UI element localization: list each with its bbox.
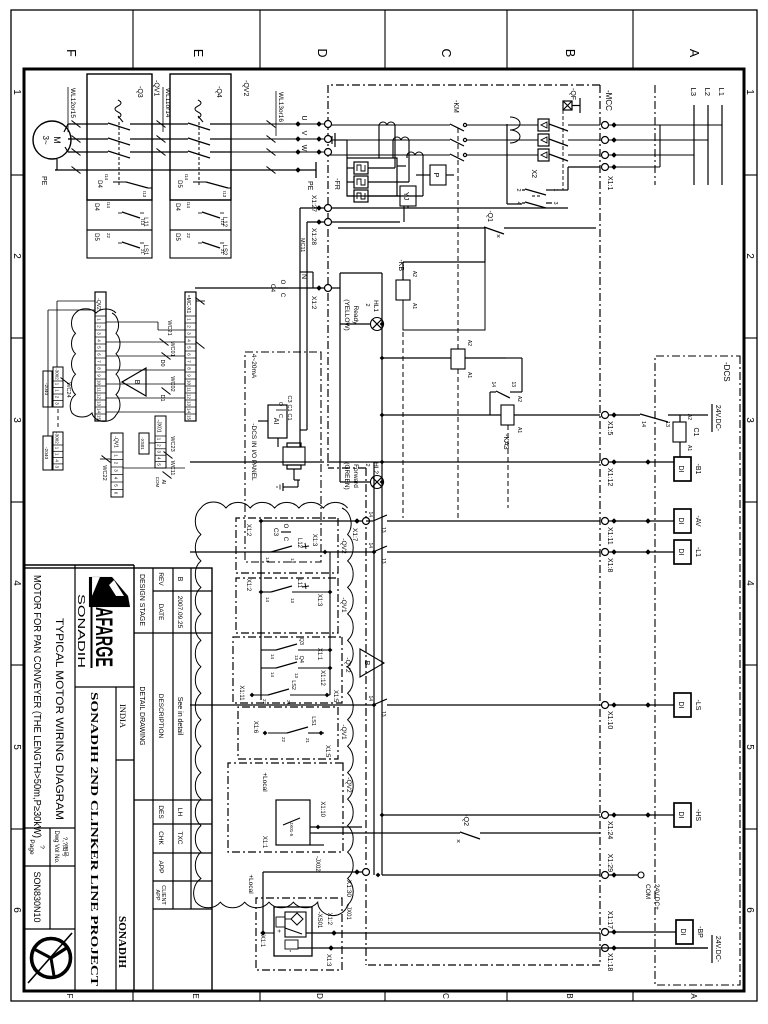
QV2 aux box2 <box>170 230 231 258</box>
terminal X1:30 <box>363 869 370 876</box>
svg-text:L11: L11 <box>296 578 302 588</box>
FR heater element <box>354 190 368 202</box>
wire KM coil bottom <box>382 357 451 359</box>
svg-text:D: D <box>315 993 324 999</box>
svg-text:X1:18: X1:18 <box>606 953 613 971</box>
svg-text:X1:27: X1:27 <box>310 195 317 212</box>
thermal overload relay -FR box <box>347 158 397 196</box>
rev table row line <box>152 568 154 991</box>
dashed link between 3002 strips <box>57 409 59 430</box>
title block line <box>133 565 135 991</box>
cable mark <box>267 167 276 174</box>
zone divider left <box>132 10 134 69</box>
QF pole box <box>538 149 549 161</box>
wire YJ to X1:27 <box>407 206 409 208</box>
svg-text:DI: DI <box>677 812 684 819</box>
wire L1 bus <box>721 105 723 185</box>
svg-text:X1:6: X1:6 <box>252 721 258 734</box>
wire L3 bus <box>693 105 695 185</box>
local box -QV2 no1 <box>236 518 338 573</box>
box -2040 b <box>43 436 52 470</box>
svg-text:24V.DC+: 24V.DC+ <box>653 884 660 910</box>
svg-text:F: F <box>65 994 74 999</box>
svg-text:X1:28: X1:28 <box>310 228 317 245</box>
wire phase lower <box>416 139 450 141</box>
svg-text:C3: C3 <box>272 528 279 537</box>
wire X1:8 lower <box>190 551 373 553</box>
strip -3002 a <box>53 367 63 407</box>
aux contact4 <box>122 242 140 248</box>
svg-text:M: M <box>52 136 62 144</box>
svg-text:Page: Page <box>28 839 35 855</box>
svg-text:Q3: Q3 <box>298 638 304 645</box>
svg-text:AFARGE: AFARGE <box>90 607 117 667</box>
FR heater wire bottom <box>347 181 354 183</box>
terminal X1:17 <box>602 929 609 936</box>
svg-text:LH: LH <box>176 808 183 817</box>
svg-text:A: A <box>687 49 701 58</box>
svg-text:-: - <box>286 950 295 953</box>
svg-text:COM: COM <box>155 477 160 488</box>
wire feeder mid <box>152 138 170 140</box>
zone divider bottom <box>11 828 24 830</box>
terminal strip -QV1 <box>111 433 123 497</box>
contact on X1:10 wire <box>373 699 387 705</box>
revision triangle B no2 <box>360 649 384 677</box>
svg-text:-QV2: -QV2 <box>344 657 351 673</box>
svg-text:L3: L3 <box>689 88 698 96</box>
AI transducer panel box <box>245 352 321 562</box>
connection dot <box>295 121 301 127</box>
svg-text:WL13or16: WL13or16 <box>277 92 284 122</box>
svg-text:4~20mA: 4~20mA <box>250 354 257 379</box>
ground symbol in AI box <box>283 486 290 488</box>
svg-text:14: 14 <box>97 408 102 414</box>
wire X1:8 <box>605 551 674 553</box>
svg-text:C1: C1 <box>286 413 292 420</box>
revision cloud around local boxes <box>194 502 354 916</box>
svg-text:B: B <box>565 993 574 998</box>
chassis ground symbol <box>335 139 347 141</box>
svg-text:-DCS: -DCS <box>722 362 731 382</box>
bus junction dot <box>380 322 385 327</box>
wire MC11 horizontal b <box>306 222 308 430</box>
X2 wire stub <box>546 202 552 204</box>
svg-text:PE: PE <box>306 181 313 191</box>
zone divider top <box>744 828 757 830</box>
svg-text:B: B <box>133 380 140 385</box>
wire tap to FR heater <box>394 125 396 168</box>
KM main contact <box>463 153 466 156</box>
svg-text:N: N <box>300 274 307 279</box>
MCC boundary right <box>366 964 600 966</box>
svg-text:21: 21 <box>305 738 310 744</box>
svg-text:X1:1: X1:1 <box>261 836 267 849</box>
svg-text:C3: C3 <box>286 395 292 402</box>
wire strip interconnect <box>106 341 185 343</box>
wire X1:24 long <box>382 814 600 816</box>
svg-text:?: ? <box>38 845 45 849</box>
wire phase in MCC upper <box>568 154 600 156</box>
svg-text:X1:17: X1:17 <box>606 911 613 929</box>
terminal strip -JX01 <box>155 416 166 468</box>
svg-text:2: 2 <box>744 253 755 259</box>
svg-text:-3002: -3002 <box>55 368 60 380</box>
DCS input block -BP <box>676 920 693 944</box>
terminal X1:11 <box>602 518 609 525</box>
cable mark2 <box>157 136 166 143</box>
svg-text:X2: X2 <box>530 169 537 178</box>
svg-text:-QV2: -QV2 <box>345 777 352 793</box>
svg-text:TYPICAL MOTOR WIRING DIAGRAM: TYPICAL MOTOR WIRING DIAGRAM <box>53 618 65 820</box>
wire phase lower <box>416 154 450 156</box>
wire X1:10 into JX02 <box>310 826 362 828</box>
wire MC11 horizontal a <box>299 208 301 447</box>
svg-text:14: 14 <box>187 408 192 414</box>
svg-text:D: D <box>315 48 329 57</box>
svg-text:13: 13 <box>380 711 386 717</box>
contact 13 14 in DCS <box>640 414 668 422</box>
wire phase mid <box>466 139 538 141</box>
wire Q1 to KB loop <box>484 228 486 262</box>
svg-text:APP: APP <box>157 860 164 873</box>
svg-text:AI: AI <box>160 480 166 485</box>
zone divider top <box>744 174 757 176</box>
contact KA3 13-14 <box>496 391 510 398</box>
wire AI to shunt <box>277 438 279 447</box>
wire strip B to 3002 a <box>57 300 95 302</box>
QF trip triangle <box>541 122 547 128</box>
svg-text:B: B <box>176 577 183 582</box>
svg-text:-B1: -B1 <box>694 464 701 475</box>
svg-text:WL12or15: WL12or15 <box>69 88 76 118</box>
svg-text:DI: DI <box>679 929 686 936</box>
svg-text:HL2: HL2 <box>372 462 379 474</box>
wire X1:11 to X1:7 <box>387 520 600 522</box>
wire PE <box>55 169 313 171</box>
svg-text:DI: DI <box>677 549 684 556</box>
wire P top <box>446 174 454 176</box>
socket -XS01 inner <box>285 912 306 937</box>
wire phase mid <box>466 124 538 126</box>
svg-text:D4: D4 <box>96 180 102 188</box>
terminal X1:18 <box>602 945 609 952</box>
QF pole box <box>538 119 549 131</box>
svg-text:3: 3 <box>552 201 558 204</box>
svg-text:WC01: WC01 <box>169 341 175 356</box>
svg-text:-QV2: -QV2 <box>95 298 101 310</box>
wire L2 drop <box>605 139 708 141</box>
svg-text:AI: AI <box>272 418 279 425</box>
svg-text:2007.09.25: 2007.09.25 <box>176 596 183 629</box>
terminal X1:2 <box>325 285 332 292</box>
contactor coil -KM <box>451 349 465 369</box>
svg-text:C: C <box>279 293 285 298</box>
DCS input block -B1 <box>674 457 691 481</box>
svg-text:C4: C4 <box>269 284 276 293</box>
zone divider top <box>744 337 757 339</box>
wire to motor <box>68 123 87 125</box>
svg-text:22: 22 <box>106 233 111 239</box>
svg-text:-DCS IN I/O PANEL: -DCS IN I/O PANEL <box>250 423 257 481</box>
svg-text:B: B <box>563 49 577 57</box>
svg-text:15: 15 <box>187 415 192 421</box>
svg-text:1: 1 <box>11 89 22 95</box>
KA3 linkage dashed <box>507 425 509 508</box>
terminal X1:5 <box>602 412 609 419</box>
revision triangle B no1 <box>122 368 146 396</box>
Q3 aux contact in box <box>126 182 148 188</box>
wire N drop <box>605 166 660 168</box>
svg-text:-JX01: -JX01 <box>156 419 162 432</box>
bus junction dot <box>376 873 381 878</box>
MCC boundary left <box>328 84 600 86</box>
svg-text:13: 13 <box>510 381 516 387</box>
svg-text:+: + <box>275 929 282 933</box>
cable mark above strip2 <box>196 298 205 305</box>
title block left edge <box>24 564 134 566</box>
svg-text:C: C <box>282 537 288 542</box>
svg-text:I14: I14 <box>184 174 189 181</box>
local box -QV1 no4 <box>238 707 338 759</box>
terminal W <box>325 149 332 156</box>
svg-text:SONADIH 2ND CLINKER LINE PROJE: SONADIH 2ND CLINKER LINE PROJECT <box>88 692 100 987</box>
svg-text:24V.DC-: 24V.DC- <box>714 936 721 963</box>
relay coil -KA3 <box>501 405 514 425</box>
DCS enclosure box <box>655 356 740 985</box>
svg-text:WC02: WC02 <box>169 376 175 391</box>
svg-text:D5: D5 <box>176 180 182 188</box>
svg-text:14: 14 <box>270 654 275 660</box>
svg-text:A: A <box>689 993 698 999</box>
svg-text:LS1: LS1 <box>142 245 148 256</box>
svg-text:HL1: HL1 <box>372 300 379 312</box>
wire Q2 into JX02 <box>310 832 313 834</box>
wire to motor <box>68 138 87 140</box>
bus junction dot <box>380 356 385 361</box>
svg-text:See in detail: See in detail <box>176 697 183 736</box>
KM main contact <box>463 138 466 141</box>
KM main contact <box>463 123 466 126</box>
MCC boundary bottom right <box>365 468 367 965</box>
connection dot <box>295 136 301 142</box>
svg-text:4: 4 <box>744 580 755 586</box>
svg-text:12: 12 <box>97 394 102 400</box>
cable mark3 <box>72 121 81 128</box>
wire X1:12 in MCC <box>327 461 600 463</box>
wire motor feeder upper <box>231 123 324 125</box>
DCS input block -L1 <box>674 540 691 564</box>
wire tap to FR heater <box>422 155 424 196</box>
svg-text:14: 14 <box>265 557 270 563</box>
wire N jog <box>312 272 314 288</box>
svg-text:+Local: +Local <box>247 874 254 894</box>
contact in JX02 <box>283 818 300 825</box>
svg-text:3: 3 <box>744 417 755 423</box>
wire FR heater feed <box>368 181 409 183</box>
zone divider right <box>132 991 134 1001</box>
wire X1:29 <box>605 874 638 876</box>
svg-text:10: 10 <box>97 380 102 386</box>
terminal X1:1 d <box>602 164 609 171</box>
local socket enclosure -JX01 <box>256 898 342 970</box>
svg-text:-QV1: -QV1 <box>153 80 160 96</box>
svg-text:SON830N10: SON830N10 <box>32 871 42 922</box>
QF trip triangle <box>541 137 547 143</box>
svg-text:C1: C1 <box>286 404 292 411</box>
wire X1:18 long <box>298 947 708 949</box>
svg-text:O: O <box>279 280 285 285</box>
wire shunt out <box>293 469 295 480</box>
svg-text:A2: A2 <box>686 414 692 420</box>
svg-text:-QF: -QF <box>569 88 576 100</box>
svg-text:L1: L1 <box>717 88 726 96</box>
wire X1:30 to socket <box>263 871 362 873</box>
cable mark3 <box>72 167 81 174</box>
contact LS2 <box>268 689 289 695</box>
wire L1 drop <box>605 124 722 126</box>
wire Q3 leg <box>298 649 330 651</box>
DCS input block -LS <box>674 693 691 717</box>
svg-text:LS1: LS1 <box>310 716 316 726</box>
double winding arcs <box>510 117 520 130</box>
svg-text:10: 10 <box>187 380 192 386</box>
svg-text:14: 14 <box>270 672 275 678</box>
svg-text:-LS: -LS <box>694 700 701 711</box>
rev table col line <box>153 590 212 592</box>
Q3 pole blade <box>130 151 152 153</box>
FR heater element <box>354 176 368 188</box>
aux contact3 <box>122 212 140 218</box>
DCS input block -HS <box>674 803 691 827</box>
bus junction dot <box>372 550 377 555</box>
X2 contact 1-2 <box>525 189 546 195</box>
aux contact2 <box>202 242 220 248</box>
FR heater wire bottom <box>347 167 354 169</box>
wire JX01 to XS01 <box>149 442 155 444</box>
wire to X1:28 <box>332 221 400 223</box>
wire X1:29 long <box>382 874 600 876</box>
FR heater element <box>354 162 368 174</box>
terminal X1:24 <box>602 812 609 819</box>
wire chain bus <box>260 521 262 700</box>
svg-text:22: 22 <box>186 233 191 239</box>
title block line2 <box>74 565 76 991</box>
box -2040 a <box>43 371 52 407</box>
local box -QV2 no3 <box>233 637 342 703</box>
Q4 thermal squiggle <box>195 100 201 118</box>
svg-text:A1: A1 <box>411 303 417 309</box>
wire below QV1 strip <box>100 458 111 460</box>
svg-text:JX01-5: JX01-5 <box>289 822 294 837</box>
svg-text:13: 13 <box>290 558 295 564</box>
svg-text:Q4: Q4 <box>298 656 304 663</box>
svg-text:11: 11 <box>187 387 192 392</box>
cable mark2 <box>157 149 166 156</box>
isolator -Q4 box <box>170 74 231 200</box>
terminal X1:7 <box>363 518 370 525</box>
wire X1:17 upper <box>605 931 676 933</box>
wire phase in MCC upper <box>568 124 600 126</box>
svg-text:X1:12: X1:12 <box>319 670 325 686</box>
revision cloud around strips <box>70 309 120 422</box>
wire N bus <box>339 273 341 482</box>
svg-text:I14: I14 <box>104 174 109 181</box>
MCC boundary bottom left <box>327 85 329 468</box>
svg-text:D1: D1 <box>159 394 165 401</box>
svg-text:SONADIH: SONADIH <box>75 594 86 668</box>
svg-text:CLIENT: CLIENT <box>160 885 166 905</box>
terminal strip =MC-X1 <box>185 292 196 421</box>
svg-text:(YELLOW): (YELLOW) <box>343 299 350 330</box>
wire stub above strip <box>196 300 205 302</box>
approval col line <box>153 852 212 854</box>
QF pole blade <box>549 124 568 131</box>
terminal X1:1 b <box>602 137 609 144</box>
motor M <box>33 121 71 159</box>
svg-text:L12: L12 <box>221 217 227 228</box>
terminal X1:1 c <box>602 152 609 159</box>
svg-text:X1:8: X1:8 <box>606 558 613 573</box>
svg-text:X1:3: X1:3 <box>311 534 317 547</box>
wire strip interconnect <box>106 411 185 413</box>
approval col line <box>153 908 212 910</box>
MCC boundary top <box>599 85 601 965</box>
contact L12 in box1 <box>271 546 292 552</box>
cable mark <box>267 121 276 128</box>
cell line <box>24 827 75 829</box>
svg-text:I14: I14 <box>106 202 111 209</box>
wire box2 leg <box>292 591 330 593</box>
svg-text:13: 13 <box>187 401 192 407</box>
svg-text:X1:1: X1:1 <box>259 935 265 948</box>
terminal X1:10 <box>602 702 609 709</box>
svg-text:3~: 3~ <box>41 135 50 144</box>
wire phase through CT <box>327 124 450 126</box>
svg-text:C1: C1 <box>692 428 699 437</box>
cable mark above strip <box>196 342 205 349</box>
svg-text:YJ: YJ <box>402 192 409 200</box>
svg-text:-FR: -FR <box>333 178 340 190</box>
svg-text:X1:11: X1:11 <box>606 527 613 545</box>
svg-text:C: C <box>441 993 450 999</box>
wire L3 drop <box>605 154 694 156</box>
zone divider bottom <box>11 337 24 339</box>
cell line <box>49 828 51 929</box>
svg-text:DETAIL DRAWING: DETAIL DRAWING <box>138 686 145 745</box>
zone divider top <box>744 664 757 666</box>
svg-text:I13: I13 <box>222 191 227 198</box>
local box -QV2 no5 <box>228 763 343 852</box>
approval col line <box>153 880 212 882</box>
svg-text:MOTOR FOR PAN CONVEYER (THE LE: MOTOR FOR PAN CONVEYER (THE LENGTH>50m,P… <box>31 575 42 838</box>
svg-text:2: 2 <box>515 188 521 191</box>
rev table col line <box>134 799 212 801</box>
svg-text:-L1: -L1 <box>694 547 701 557</box>
svg-text:X1:2: X1:2 <box>310 296 317 310</box>
zone divider right <box>506 991 508 1001</box>
cable mark <box>267 149 276 156</box>
strip -3002 b <box>53 432 63 470</box>
bus junction dot <box>380 813 385 818</box>
svg-text:Ready: Ready <box>352 306 359 326</box>
svg-text:E: E <box>191 49 205 57</box>
wire motor feeder upper <box>231 151 324 153</box>
svg-text:X1:5: X1:5 <box>332 690 338 703</box>
svg-text:X1:2: X1:2 <box>245 579 251 592</box>
svg-text:CHK: CHK <box>157 831 164 845</box>
wire KM coil top <box>465 357 506 359</box>
